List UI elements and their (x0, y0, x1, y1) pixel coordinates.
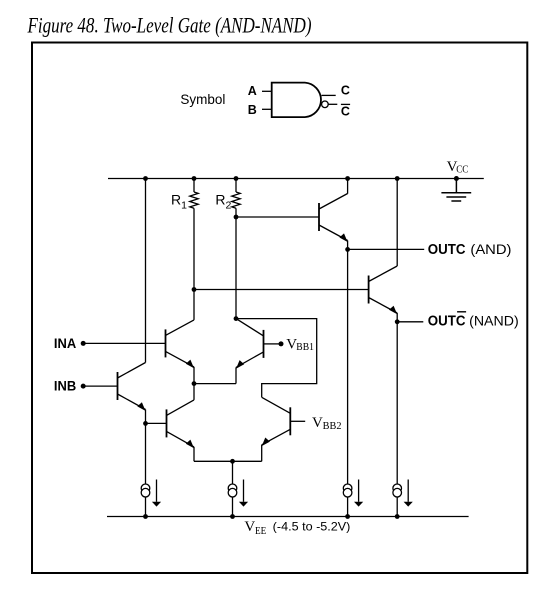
svg-text:BB2: BB2 (323, 421, 342, 432)
gate input wire A (262, 90, 272, 92)
svg-text:EE: EE (255, 526, 266, 537)
wire Q1 emitter down (193, 367, 195, 384)
node: rail junction x=145.5 (143, 176, 148, 181)
current source I1 (141, 480, 161, 507)
node: rail junction x=347.6 (345, 176, 350, 181)
wire Q4 collector up (193, 384, 195, 400)
wire Q7 emitter down (261, 445, 263, 462)
node OUTC-bar (395, 319, 400, 324)
svg-text:CC: CC (456, 165, 468, 176)
svg-text:(AND): (AND) (470, 241, 511, 257)
svg-text:R: R (171, 192, 181, 208)
wire Q4 emitter down (193, 447, 195, 461)
node OUTC (345, 247, 350, 252)
Q2 emitter arrow (236, 360, 244, 369)
transistor Q3 (INB emitter follower) (118, 363, 146, 410)
Q1 emitter arrow (186, 360, 194, 369)
transistor Q6 (OUTC-bar emitter follower) (369, 266, 398, 313)
gate output wire C (322, 94, 336, 96)
node VEE junction 1 (143, 514, 148, 519)
svg-text:B: B (248, 103, 257, 117)
svg-text:BB1: BB1 (296, 342, 314, 353)
transistor Q4 (level 2 input side) (167, 400, 195, 447)
svg-text:V: V (312, 415, 323, 431)
node VEE junction 2 (230, 514, 235, 519)
node level2 common emitters (230, 459, 235, 464)
svg-text:Figure 48. Two-Level Gate (AND: Figure 48. Two-Level Gate (AND-NAND) (27, 12, 312, 37)
svg-text:C: C (341, 104, 350, 118)
node R2/base of OUTC follower (234, 215, 239, 220)
inversion bubble (322, 101, 329, 108)
node: rail junction x=194 (192, 176, 197, 181)
wire Q3 collector to rail (145, 179, 147, 363)
wire OUTC net down to current source (347, 249, 349, 516)
node VBB1 terminal (279, 341, 284, 346)
wire current source 2 (232, 461, 234, 516)
wire Q6 emitter down (396, 313, 398, 322)
node INB terminal (81, 384, 86, 389)
wire Q6 collector to rail (396, 179, 398, 267)
nand-gate symbol U1 (272, 83, 321, 118)
wire OUTC (348, 248, 425, 250)
wire R2 net down (235, 208, 237, 318)
svg-text:INA: INA (54, 335, 76, 351)
Q5 emitter arrow (339, 233, 347, 242)
wire emitter coupling level2 (194, 460, 262, 462)
node: rail junction x=236 (234, 176, 239, 181)
node R2/collector junction (234, 316, 239, 321)
wire NAND base line (194, 289, 369, 291)
node level1 common emitters (192, 381, 197, 386)
gate output wire C-bar (328, 103, 337, 105)
current source I2 (228, 480, 248, 507)
svg-text:OUTC: OUTC (428, 242, 466, 258)
Q4 emitter arrow (186, 440, 194, 449)
transistor Q1 (INA, level 1) (166, 320, 195, 367)
wire Q5 emitter down (347, 241, 349, 250)
wire INB (83, 385, 117, 387)
node level2 base (143, 421, 148, 426)
svg-text:Symbol: Symbol (180, 91, 225, 107)
wire OUTC-bar net down to current source (396, 322, 398, 517)
resistor R1 (190, 179, 198, 209)
svg-text:(-4.5 to -5.2V): (-4.5 to -5.2V) (273, 519, 351, 533)
Q7 emitter arrow (262, 438, 270, 447)
svg-text:V: V (244, 519, 255, 535)
wire VBB1 base (264, 343, 280, 345)
node: rail junction x=397.2 (395, 176, 400, 181)
wire Q5 collector to rail (347, 179, 349, 194)
transistor Q7 (VBB2, level 2) (262, 397, 291, 445)
wire emitter coupling level1 (194, 383, 236, 385)
wire R2 node to VBB2 collector (236, 319, 317, 398)
svg-text:(NAND): (NAND) (469, 313, 519, 329)
ground (441, 179, 471, 202)
Q6 emitter arrow (389, 306, 397, 315)
wire level2 base (146, 422, 167, 424)
svg-text:1: 1 (181, 199, 187, 211)
current source I3 (343, 480, 363, 507)
wire INA (83, 342, 165, 344)
transistor Q2 (VBB1, level 1) (236, 319, 264, 368)
node on R1 net (192, 287, 197, 292)
wire Q3 emitter down (145, 410, 147, 424)
wire VBB2 base (290, 420, 305, 422)
svg-text:INB: INB (54, 378, 76, 394)
VCC rail wire (108, 178, 484, 180)
wire base of OUTC follower (236, 216, 319, 218)
wire OUTC-bar (397, 321, 423, 323)
wire current source 1 (145, 423, 147, 516)
node INA terminal (81, 341, 86, 346)
svg-text:C: C (341, 84, 350, 98)
Q3 emitter arrow (137, 402, 145, 411)
svg-text:OUTC: OUTC (428, 314, 466, 330)
node: rail junction at ground tap (454, 176, 459, 181)
svg-text:A: A (248, 84, 257, 98)
resistor R2 (232, 179, 240, 209)
svg-text:R: R (215, 192, 225, 208)
node VEE junction 4 (395, 514, 400, 519)
svg-text:2: 2 (226, 199, 232, 211)
wire R1 net down (193, 208, 195, 320)
node VEE junction 3 (345, 514, 350, 519)
current source I4 (393, 480, 413, 507)
transistor Q5 (OUTC emitter follower) (319, 194, 348, 241)
gate input wire B (262, 108, 272, 110)
VEE rail wire (107, 516, 469, 518)
